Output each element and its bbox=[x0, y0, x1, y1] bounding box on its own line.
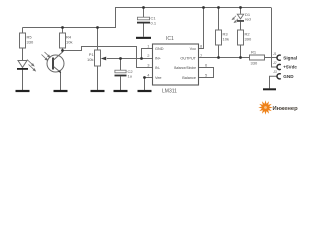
svg-text:red: red bbox=[245, 17, 251, 22]
svg-text:10k: 10k bbox=[223, 37, 229, 42]
svg-text:Инженер: Инженер bbox=[273, 106, 299, 112]
svg-text:2: 2 bbox=[147, 53, 150, 58]
svg-text:GND: GND bbox=[283, 74, 294, 79]
svg-text:330: 330 bbox=[27, 40, 34, 45]
svg-text:IN+: IN+ bbox=[155, 57, 162, 61]
svg-text:330: 330 bbox=[251, 61, 258, 66]
svg-text:+5Vdc: +5Vdc bbox=[283, 65, 297, 70]
svg-text:IN-: IN- bbox=[155, 66, 161, 70]
svg-text:1: 1 bbox=[147, 44, 150, 49]
svg-text:Signal: Signal bbox=[283, 55, 297, 60]
svg-text:3: 3 bbox=[147, 63, 150, 68]
svg-text:J1: J1 bbox=[272, 52, 277, 56]
svg-text:390: 390 bbox=[245, 37, 252, 42]
svg-text:8: 8 bbox=[200, 44, 203, 49]
svg-text:4: 4 bbox=[147, 73, 150, 78]
svg-text:J3: J3 bbox=[272, 70, 277, 74]
svg-text:GND: GND bbox=[155, 47, 164, 51]
svg-text:5: 5 bbox=[205, 73, 208, 78]
svg-text:J2: J2 bbox=[272, 61, 277, 65]
svg-text:R1: R1 bbox=[251, 50, 257, 55]
svg-text:10k: 10k bbox=[66, 40, 72, 45]
svg-text:6: 6 bbox=[205, 63, 208, 68]
svg-text:0.1: 0.1 bbox=[151, 20, 157, 25]
svg-text:10k: 10k bbox=[87, 57, 93, 62]
svg-text:IC1: IC1 bbox=[166, 36, 174, 42]
svg-text:1u: 1u bbox=[128, 74, 132, 79]
svg-text:LM311: LM311 bbox=[162, 88, 177, 94]
svg-text:OUTPUT: OUTPUT bbox=[180, 57, 196, 61]
svg-text:Balance: Balance bbox=[182, 76, 196, 80]
svg-text:Balance/Strobe: Balance/Strobe bbox=[174, 66, 196, 70]
svg-text:Vee: Vee bbox=[155, 76, 162, 80]
svg-text:Vcc: Vcc bbox=[190, 47, 196, 51]
